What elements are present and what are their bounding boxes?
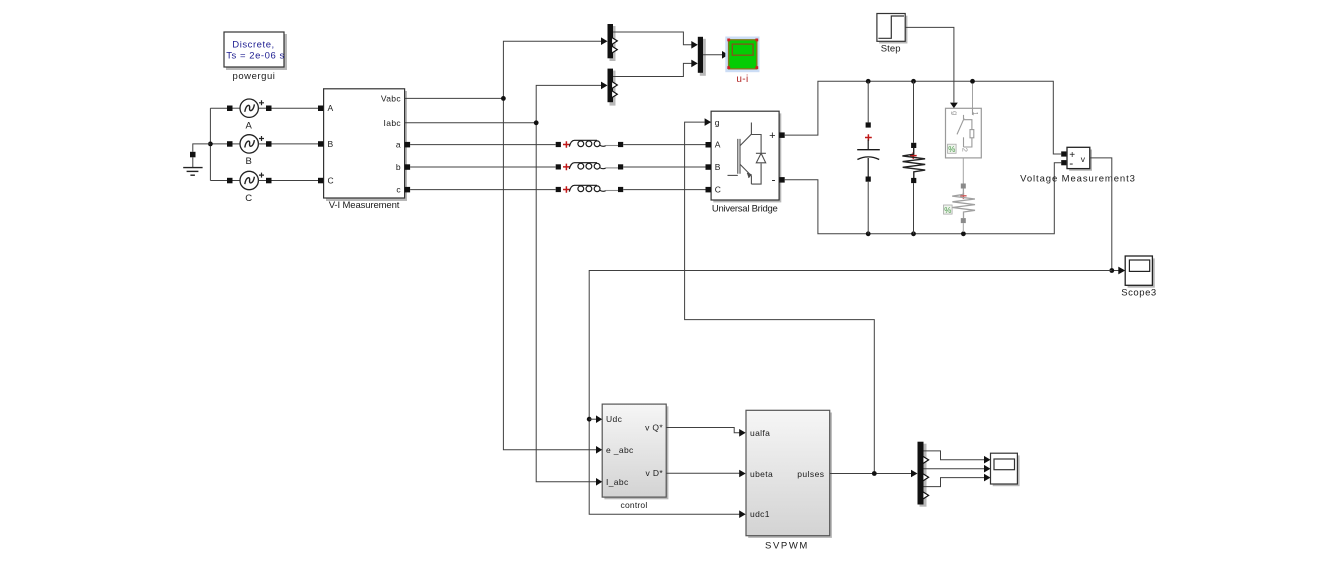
- node top bus res: [911, 79, 916, 84]
- svg-text:Voltage Measurement3: Voltage Measurement3: [1020, 174, 1136, 185]
- node Iabc junction: [534, 120, 539, 125]
- wire mux to u-i scope: [703, 54, 722, 56]
- svg-text:A: A: [715, 140, 721, 150]
- node Vabc junction: [501, 96, 506, 101]
- scope u-i (selected): [725, 37, 759, 86]
- wire bus to source B: [210, 143, 227, 145]
- svg-text:v: v: [1081, 154, 1086, 164]
- wire demux2 out1 to mux: [613, 63, 692, 76]
- svg-text:v Q*: v Q*: [645, 423, 663, 433]
- wire top bus to breaker port 1: [972, 84, 974, 109]
- svg-text:B: B: [328, 139, 334, 149]
- svg-text:e _abc: e _abc: [606, 445, 634, 455]
- svg-text:Vabc: Vabc: [381, 93, 402, 103]
- svg-text:Iabc: Iabc: [384, 118, 402, 128]
- svg-text:2: 2: [960, 148, 969, 152]
- series RLC load (commented): [944, 184, 976, 224]
- node pulses junction: [872, 471, 877, 476]
- node VM3 out junction: [1109, 268, 1114, 273]
- mux Mux: [691, 37, 706, 76]
- wire Iabc up to demux2: [536, 85, 601, 122]
- svg-text:A: A: [328, 103, 334, 113]
- svg-text:Step: Step: [881, 44, 901, 55]
- svg-text:powergui: powergui: [233, 71, 276, 82]
- node top bus breaker: [970, 79, 975, 84]
- demux Demux3: [918, 442, 929, 507]
- ground: [183, 152, 202, 175]
- wire RL c to bridge C: [623, 189, 705, 191]
- wire Vabc to junction: [405, 97, 504, 99]
- svg-text:Discrete,: Discrete,: [232, 40, 274, 51]
- svg-text:v D*: v D*: [646, 468, 664, 478]
- demux Demux1: [601, 24, 617, 61]
- wire resistor to bottom bus: [913, 183, 915, 234]
- control block: [596, 404, 668, 510]
- wire Vabc up to demux1: [503, 41, 601, 98]
- wire control vD* to SVPWM ubeta: [666, 472, 739, 474]
- svg-text:g: g: [950, 111, 959, 115]
- wire V-I b to RL b: [410, 166, 556, 168]
- svg-text:u-i: u-i: [736, 74, 748, 85]
- wire source A to V-I A: [272, 107, 319, 109]
- wire RLC load to bottom bus: [962, 223, 964, 232]
- wire breaker port2 down: [962, 158, 964, 184]
- wire VM3 to Scope3: [1090, 158, 1119, 271]
- svg-text:pulses: pulses: [797, 469, 824, 479]
- svg-text:b: b: [396, 162, 401, 172]
- svg-text:Ts = 2e-06 s: Ts = 2e-06 s: [226, 51, 285, 62]
- capacitor C: [857, 122, 880, 181]
- wire control vQ* to SVPWM ualfa: [666, 428, 739, 433]
- svg-text:Scope3: Scope3: [1121, 288, 1157, 299]
- AC voltage source C: [227, 171, 272, 204]
- wire bridge + to top bus to VM3: [785, 81, 1061, 154]
- svg-text:g: g: [715, 117, 720, 127]
- wire demux3 out5 to scope: [924, 478, 985, 487]
- svg-text:+: +: [769, 130, 775, 142]
- wire junction to control Udc: [589, 418, 596, 420]
- svg-text:a: a: [396, 140, 401, 150]
- SVPWM block: [746, 410, 832, 551]
- wire V-I c to RL c: [410, 189, 556, 191]
- wire Iabc to junction: [405, 122, 537, 124]
- svg-text:C: C: [245, 193, 252, 204]
- svg-text:udc1: udc1: [750, 509, 770, 519]
- wire Step to breaker g: [905, 27, 954, 102]
- svg-text:C: C: [715, 185, 722, 195]
- wire SVPWM pulses to bridge g: [685, 122, 875, 473]
- AC voltage source A: [227, 99, 272, 132]
- wire ground stub: [193, 144, 211, 152]
- svg-text:SVPWM: SVPWM: [765, 541, 809, 552]
- node bottom bus cap: [866, 231, 871, 236]
- svg-text:c: c: [396, 185, 401, 195]
- svg-text:control: control: [621, 500, 648, 510]
- wire source B to V-I B: [272, 143, 319, 145]
- svg-text:-: -: [772, 173, 776, 187]
- svg-text:V-I Measurement: V-I Measurement: [329, 200, 400, 211]
- node top bus cap: [866, 79, 871, 84]
- wire demux3 out3 to scope: [924, 468, 985, 470]
- demux Demux2: [601, 69, 617, 106]
- svg-text:B: B: [715, 162, 721, 172]
- svg-text:ubeta: ubeta: [750, 469, 773, 479]
- svg-text:Universal Bridge: Universal Bridge: [712, 203, 778, 214]
- wire bridge - to bottom bus to VM3: [785, 163, 1061, 234]
- wire Vabc down to control e_abc: [503, 98, 596, 449]
- wire top bus to resistor: [913, 81, 915, 143]
- svg-text:-: -: [1069, 156, 1073, 170]
- wire demux1 out1 to mux: [613, 32, 692, 45]
- node bus-B junction: [208, 142, 213, 147]
- node bottom bus breaker: [961, 231, 966, 236]
- wire bus to source C: [210, 180, 227, 182]
- wire source C to V-I C: [272, 180, 319, 182]
- Step block: [877, 14, 907, 55]
- Scope3: [1121, 256, 1157, 299]
- wire V-I a to RL a: [410, 144, 556, 146]
- AC voltage source B: [227, 135, 272, 168]
- series RL branch b: [556, 163, 624, 171]
- scope Scope4: [991, 453, 1020, 486]
- series RL branch a: [556, 140, 624, 148]
- V-I Measurement block: [318, 89, 410, 211]
- node Udc junction: [587, 417, 592, 422]
- svg-text:B: B: [246, 156, 253, 167]
- Voltage Measurement3 block: [1020, 147, 1136, 184]
- svg-text:I_abc: I_abc: [606, 477, 629, 487]
- wire VM3 branch to control and SVPWM: [589, 271, 1112, 515]
- breaker (commented): [946, 108, 982, 158]
- svg-text:Udc: Udc: [606, 414, 623, 424]
- svg-text:A: A: [246, 121, 253, 132]
- wire source bus vertical: [209, 108, 211, 180]
- wire demux3 out1 to scope: [924, 451, 985, 460]
- wire SVPWM pulses to demux3: [830, 473, 911, 475]
- series RL branch c: [556, 185, 624, 193]
- wire top bus to capacitor: [867, 81, 869, 122]
- svg-text:C: C: [328, 176, 335, 186]
- Universal Bridge block: [705, 111, 785, 214]
- wire Iabc down to control i_abc: [536, 123, 596, 482]
- svg-text:%: %: [944, 206, 951, 215]
- resistor R: [902, 143, 925, 183]
- node bottom bus res: [911, 231, 916, 236]
- svg-text:ualfa: ualfa: [750, 428, 770, 438]
- wire RL a to bridge A: [623, 144, 705, 146]
- wire capacitor to bottom bus: [867, 182, 869, 234]
- wire bus to source A: [210, 107, 227, 109]
- svg-text:%: %: [948, 145, 955, 154]
- powergui block: [224, 32, 287, 82]
- wire RL b to bridge B: [623, 166, 705, 168]
